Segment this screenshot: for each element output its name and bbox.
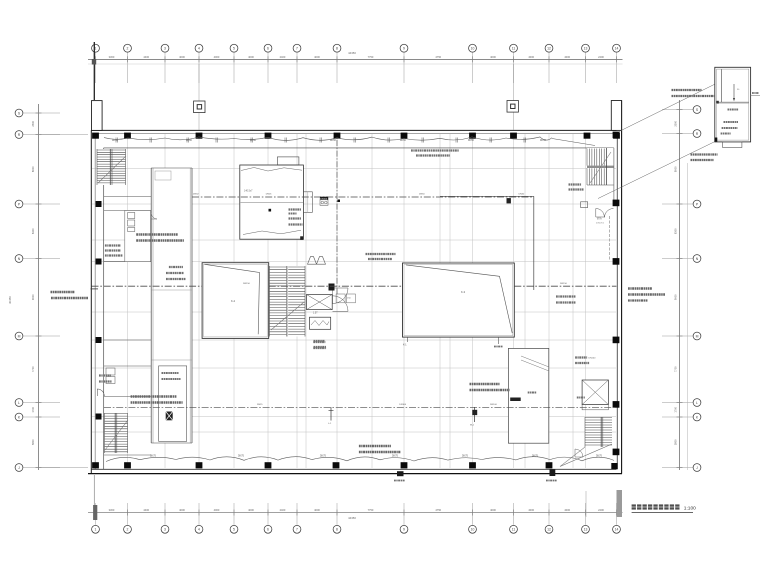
svg-text:M: M: [696, 334, 699, 338]
svg-text:4000: 4000: [564, 508, 570, 512]
label bottomleft-2rows: [99, 374, 111, 376]
wall vertical-x534: [533, 196, 535, 290]
node detail-bottom-protrusion: [723, 142, 742, 148]
svg-text:DN75: DN75: [462, 456, 469, 458]
label bottomleft-dn100: [131, 395, 177, 397]
svg-text:DN50: DN50: [250, 140, 257, 142]
node below-wall-outlet-1: [397, 471, 404, 476]
node top-axis-dimension-line: [88, 51, 623, 83]
svg-text:2400: 2400: [280, 55, 286, 59]
svg-text:DN32: DN32: [519, 193, 525, 195]
node below-wall-outlet-2: [550, 470, 556, 477]
wall corridor-right: [189, 168, 191, 443]
svg-text:30450: 30450: [8, 296, 12, 304]
label centre-2rows: [313, 341, 325, 343]
svg-text:DN50: DN50: [112, 140, 119, 142]
wire leader-diagonal-lower: [598, 141, 716, 199]
svg-text:DN50: DN50: [419, 193, 425, 195]
svg-text:1700: 1700: [31, 406, 35, 412]
svg-text:9: 9: [403, 47, 405, 51]
svg-text:4: 4: [198, 528, 200, 532]
pipe sprinkler-top-hangers: [116, 138, 526, 143]
svg-text:4000: 4000: [248, 508, 254, 512]
svg-text:4000: 4000: [179, 55, 185, 59]
wall detail-divider: [717, 101, 749, 103]
wire top-left-extension: [93, 42, 95, 100]
svg-text:4000: 4000: [314, 55, 320, 59]
room A-zigzag-top: [241, 168, 302, 172]
svg-text:3300: 3300: [109, 508, 115, 512]
svg-text:7750: 7750: [368, 508, 374, 512]
pipe sprinkler-slope-right: [552, 139, 595, 146]
svg-text:DN50: DN50: [400, 140, 407, 142]
svg-text:M: M: [18, 334, 21, 338]
wall inner-partition-left: [103, 148, 105, 469]
pipe vertical-x337: [336, 140, 338, 294]
node door-bottom-complex: [575, 449, 583, 457]
node detail-black-mark: [715, 138, 718, 142]
svg-text:DN100: DN100: [589, 358, 597, 360]
room B-inner-slope: [205, 264, 260, 334]
node room-A-bottom-mark: [300, 236, 303, 240]
svg-text:9000: 9000: [31, 294, 35, 300]
room C-outline: [403, 263, 515, 337]
svg-text:2400: 2400: [598, 55, 604, 59]
svg-text:4400: 4400: [143, 508, 149, 512]
stair bottom-right: [585, 417, 612, 447]
svg-text:DN50: DN50: [540, 140, 547, 142]
wall inner-partition-right: [613, 148, 615, 205]
node detail-arrow: [733, 84, 735, 99]
room A-side-box: [303, 192, 312, 213]
node square-symbol-axis11: [513, 64, 515, 130]
svg-text:2: 2: [127, 528, 129, 532]
svg-text:L: L: [696, 401, 698, 405]
room A-top-box: [277, 157, 299, 165]
svg-text:DN100: DN100: [490, 404, 498, 406]
wall inner-partition-top: [104, 147, 614, 149]
svg-text:4750: 4750: [435, 508, 441, 512]
node riser-x339: [338, 200, 341, 203]
svg-text:6: 6: [267, 47, 269, 51]
node door-double-centre: [333, 288, 349, 304]
wall top-left-parapet: [92, 101, 103, 131]
svg-text:4000: 4000: [528, 508, 534, 512]
pipe sprinkler-main-top: [104, 137, 552, 141]
pipe main-y197: [192, 196, 534, 198]
svg-text:10: 10: [471, 47, 475, 51]
node columns: [92, 132, 620, 470]
svg-text:K-3: K-3: [461, 290, 466, 294]
node left-axis-bubbles: [15, 109, 23, 471]
wall pump-room-bottom: [508, 348, 548, 443]
svg-text:5800: 5800: [31, 439, 35, 445]
wall outer-top: [91, 129, 616, 131]
pipe main-y407: [104, 406, 616, 408]
label tank-label: [577, 397, 585, 399]
node fire-hydrant-mark: [329, 284, 335, 291]
node pump-room-bar: [510, 398, 521, 402]
node elevator-1: [307, 295, 333, 310]
svg-text:140.5x7: 140.5x7: [244, 190, 253, 193]
svg-text:6300: 6300: [31, 228, 35, 234]
stair top-right: [587, 148, 614, 185]
room A-divider: [241, 202, 304, 204]
label drawing-title: [632, 504, 697, 512]
pipe top-labels: [112, 140, 547, 142]
wall outer-right: [621, 100, 623, 473]
label detail-inner-texts: [728, 109, 739, 111]
node right-axis-bubbles: [693, 106, 701, 472]
svg-text:170x7.5: 170x7.5: [596, 223, 605, 225]
node right-axis-dimension-line: [662, 100, 693, 470]
node wall-entry-tick-left: [91, 288, 99, 290]
node corridor-pump: [166, 412, 173, 421]
svg-text:7750: 7750: [368, 55, 374, 59]
label right-margin-note: [628, 287, 652, 289]
wall corridor-left: [150, 168, 152, 443]
wire bottom-right-grey-bar: [617, 490, 623, 517]
label pump-room-rows: [162, 372, 179, 374]
svg-text:14: 14: [615, 528, 619, 532]
svg-text:5: 5: [233, 47, 235, 51]
svg-text:DN100: DN100: [399, 404, 407, 406]
svg-text:8: 8: [336, 47, 338, 51]
node small-rects-centre: [336, 294, 345, 303]
pipe bottom-labels: [150, 456, 603, 458]
pipe bottom-drain-main: [106, 457, 614, 462]
svg-text:DN25: DN25: [266, 193, 272, 195]
node room-C-bottom-ticks: [407, 337, 409, 342]
svg-text:10: 10: [471, 528, 475, 532]
node water-tank: [310, 317, 331, 329]
svg-text:4000: 4000: [248, 55, 254, 59]
node riser-x508: [507, 198, 511, 203]
svg-text:5: 5: [233, 528, 235, 532]
svg-text:4000: 4000: [214, 55, 220, 59]
node left-axis-dimension-line: [8, 104, 88, 470]
label bottomcentre-2rows: [359, 445, 391, 447]
node top-right-texts: [569, 183, 582, 185]
wire leader-diagonal-upper: [618, 67, 749, 132]
svg-text:9000: 9000: [673, 294, 677, 300]
wall outer-bottom: [88, 473, 622, 475]
svg-text:DN75: DN75: [532, 456, 539, 458]
svg-text:1700: 1700: [673, 406, 677, 412]
svg-text:7700: 7700: [31, 366, 35, 372]
svg-text:1.5T: 1.5T: [313, 313, 318, 315]
room C-inner-slope: [406, 265, 512, 333]
svg-text:6300: 6300: [673, 228, 677, 234]
label left-margin-note: [51, 291, 75, 293]
node interior-grid: [92, 134, 617, 468]
svg-text:4000: 4000: [490, 55, 496, 59]
wall corridor-caps: [151, 167, 192, 169]
svg-text:DN75: DN75: [596, 456, 603, 458]
svg-text:DN150: DN150: [243, 283, 251, 285]
svg-text:6: 6: [267, 528, 269, 532]
svg-text:8: 8: [336, 528, 338, 532]
node left-toilet-fixtures: [106, 368, 115, 375]
node bottom-axis-bubbles: [92, 525, 621, 533]
node square-symbol-axis4: [198, 64, 200, 130]
node pump-room-ramp: [521, 356, 549, 367]
svg-text:2500: 2500: [31, 120, 35, 126]
node corridor-top-box: [155, 171, 171, 180]
svg-text:3: 3: [164, 47, 166, 51]
svg-text:L: L: [18, 401, 20, 405]
svg-text:4000: 4000: [564, 55, 570, 59]
svg-text:8000: 8000: [31, 166, 35, 172]
svg-text:7: 7: [296, 528, 298, 532]
label bottomright-2rows: [470, 383, 500, 385]
node elevator-bottom-right: [582, 380, 608, 405]
stair bottom-left: [105, 413, 128, 453]
svg-text:4000: 4000: [179, 508, 185, 512]
label top-centre-note: [411, 149, 459, 151]
svg-text:13: 13: [584, 528, 588, 532]
svg-text:4000: 4000: [214, 508, 220, 512]
label roomC-right-rows: [556, 295, 576, 297]
svg-text:3: 3: [164, 528, 166, 532]
node room-A-dot: [269, 209, 272, 212]
svg-text:4000: 4000: [490, 508, 496, 512]
svg-text:7: 7: [296, 47, 298, 51]
room B-outline: [202, 263, 269, 339]
node top-axis-bubbles: [92, 44, 621, 52]
node door-left-strip: [151, 213, 157, 219]
svg-text:J: J: [696, 466, 698, 470]
svg-text:11: 11: [512, 528, 516, 532]
node trapezoid-doors: [308, 257, 317, 265]
node corridor-bg: [151, 168, 192, 443]
label detail-left-note: [672, 89, 702, 91]
wall outer-left: [90, 130, 92, 473]
label mid-upper-note: [366, 253, 396, 255]
svg-text:DN50: DN50: [330, 140, 337, 142]
wall detail-vertical: [721, 69, 723, 102]
wall top-right-parapet: [611, 101, 621, 131]
label corridor-3rows: [169, 266, 183, 268]
wire detail-right-tick: [751, 95, 760, 97]
svg-text:DN75: DN75: [150, 456, 157, 458]
wall left-strip-dividers: [104, 210, 152, 212]
svg-text:44350: 44350: [348, 51, 356, 55]
svg-text:13: 13: [584, 47, 588, 51]
node left-strip-fixtures: [128, 213, 135, 219]
node pump-fixture-box: [581, 202, 588, 208]
pipe main-y197-label: [320, 197, 328, 200]
room A-texts: [289, 208, 302, 210]
label mid-left-2rows: [136, 233, 178, 235]
svg-text:DN25: DN25: [257, 404, 263, 406]
svg-text:K-2: K-2: [231, 299, 236, 303]
svg-text:6T/h: 6T/h: [597, 219, 602, 221]
svg-text:9: 9: [403, 528, 405, 532]
svg-text:5800: 5800: [673, 439, 677, 445]
svg-text:4000: 4000: [528, 55, 534, 59]
svg-text:2500: 2500: [673, 120, 677, 126]
node siamese-connection: [320, 200, 328, 206]
svg-text:DN75: DN75: [392, 456, 399, 458]
svg-text:8000: 8000: [673, 166, 677, 172]
svg-text:4000: 4000: [314, 508, 320, 512]
node left-strip-room1: [125, 211, 151, 262]
svg-text:12: 12: [547, 47, 551, 51]
room A-outline: [240, 165, 304, 239]
svg-text:DN150: DN150: [560, 283, 568, 285]
node riser-x473: [474, 407, 476, 422]
node riser-x331: [330, 407, 332, 420]
svg-text:2400: 2400: [280, 508, 286, 512]
svg-text:44350: 44350: [348, 516, 356, 520]
svg-text:1: 1: [95, 528, 97, 532]
node door-bottom-left: [97, 389, 104, 396]
svg-text:12: 12: [547, 528, 551, 532]
stair top-left: [97, 149, 126, 185]
label pumproom-2rows: [575, 356, 587, 358]
node door-arcs-top-right: [596, 209, 605, 218]
label left-inner-3rows: [105, 244, 121, 246]
svg-text:1:100: 1:100: [684, 506, 696, 512]
wire bottom-left-extension: [93, 505, 97, 520]
pipe vertical-x610: [609, 216, 611, 260]
svg-text:DN32: DN32: [193, 194, 199, 196]
pipe main-y286: [92, 285, 203, 287]
node detail-room-outline: [715, 67, 751, 142]
svg-text:DN75: DN75: [320, 456, 327, 458]
room A-zigzag-bottom: [243, 230, 301, 234]
label detail-below-note: [691, 153, 718, 155]
svg-text:7700: 7700: [673, 366, 677, 372]
svg-text:DN75: DN75: [238, 456, 245, 458]
svg-text:DN50: DN50: [468, 140, 475, 142]
svg-text:4750: 4750: [435, 55, 441, 59]
stair center: [270, 266, 306, 337]
svg-text:11: 11: [512, 47, 516, 51]
node bottom-axis-dimension-line: [88, 503, 623, 525]
svg-text:DN50: DN50: [186, 140, 193, 142]
svg-text:J: J: [18, 466, 20, 470]
wall upper-hall-boundary: [104, 196, 192, 198]
svg-text:4400: 4400: [143, 55, 149, 59]
svg-text:2: 2: [127, 47, 129, 51]
svg-text:3300: 3300: [109, 55, 115, 59]
svg-text:4: 4: [198, 47, 200, 51]
svg-text:2400: 2400: [598, 508, 604, 512]
node corridor-pump-room: [159, 366, 187, 441]
svg-text:14: 14: [615, 47, 619, 51]
